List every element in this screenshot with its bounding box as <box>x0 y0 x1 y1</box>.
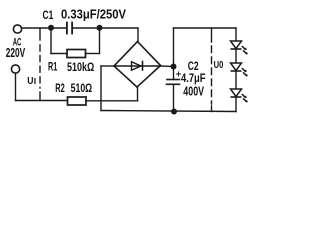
svg-text:C1: C1 <box>43 8 54 22</box>
svg-text:510kΩ: 510kΩ <box>67 60 95 74</box>
svg-text:U0: U0 <box>214 60 224 71</box>
svg-text:400V: 400V <box>183 85 204 99</box>
svg-text:4.7μF: 4.7μF <box>181 71 206 85</box>
svg-text:220V: 220V <box>6 46 26 60</box>
svg-text:510Ω: 510Ω <box>71 81 93 95</box>
svg-text:U: U <box>27 76 33 87</box>
svg-text:R2: R2 <box>55 81 65 95</box>
svg-text:R1: R1 <box>48 60 57 74</box>
svg-text:I: I <box>34 76 36 86</box>
svg-text:0.33μF/250V: 0.33μF/250V <box>61 7 127 21</box>
